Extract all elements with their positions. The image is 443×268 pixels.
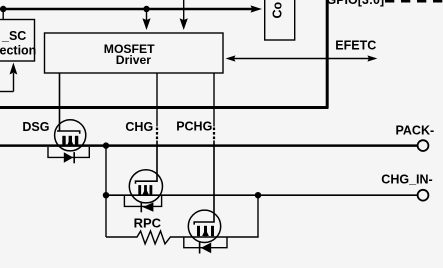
svg-text:ection: ection xyxy=(0,43,36,57)
svg-text:CHG: CHG xyxy=(125,120,153,134)
svg-text:PACK-: PACK- xyxy=(396,123,435,137)
svg-text:GPIO[3:0]: GPIO[3:0] xyxy=(327,0,385,7)
svg-text:Co: Co xyxy=(271,1,285,18)
svg-text:PCHG: PCHG xyxy=(176,120,212,134)
svg-text:CHG_IN-: CHG_IN- xyxy=(381,172,432,186)
svg-text:DSG: DSG xyxy=(22,120,49,134)
svg-text:EFETC: EFETC xyxy=(335,38,376,52)
svg-text:RPC: RPC xyxy=(134,216,162,231)
svg-text:Driver: Driver xyxy=(116,53,151,67)
svg-text:_SC: _SC xyxy=(1,29,26,43)
